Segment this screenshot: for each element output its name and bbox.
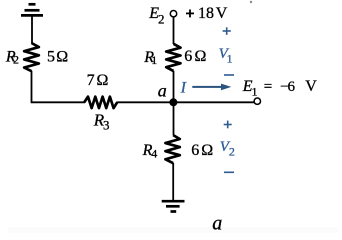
svg-text:2: 2 xyxy=(229,144,235,158)
svg-text:7: 7 xyxy=(87,72,95,89)
svg-text:1: 1 xyxy=(227,51,233,65)
svg-text:Ω: Ω xyxy=(56,49,68,66)
label +18V xyxy=(186,10,194,18)
terminal E2 xyxy=(170,11,176,17)
wire ground-to-R2 xyxy=(31,15,33,43)
svg-text:4: 4 xyxy=(151,147,157,161)
svg-text:Ω: Ω xyxy=(195,48,207,65)
ground (bottom) xyxy=(162,201,185,211)
svg-text:6: 6 xyxy=(184,48,192,65)
svg-text:5: 5 xyxy=(47,49,55,66)
svg-text:18: 18 xyxy=(198,5,214,22)
svg-text:a: a xyxy=(212,213,222,234)
svg-text:V: V xyxy=(305,78,317,95)
resistor R2 xyxy=(24,43,39,71)
resistor R1 xyxy=(166,44,180,71)
minus V1 (blue) xyxy=(224,74,234,76)
svg-text:2: 2 xyxy=(158,12,165,27)
plus V1 (blue) xyxy=(223,27,231,35)
svg-text:V: V xyxy=(216,5,228,22)
plus V2 (blue) xyxy=(224,121,232,129)
ground (top, inverted) xyxy=(21,4,43,15)
svg-text:6: 6 xyxy=(288,79,296,95)
wire R3-to-E1 terminal xyxy=(117,101,254,103)
stray speck top right xyxy=(250,1,252,3)
wire R1-to-R4 through node xyxy=(173,71,175,136)
faint caption band xyxy=(8,227,338,233)
resistor R3 xyxy=(84,97,117,109)
current arrow xyxy=(192,84,231,91)
svg-text:I: I xyxy=(180,80,187,97)
terminal E1 xyxy=(254,98,260,104)
svg-text:=: = xyxy=(264,79,272,95)
svg-text:3: 3 xyxy=(103,118,110,133)
wire E2-to-R1 xyxy=(173,17,175,44)
svg-text:2: 2 xyxy=(13,53,19,67)
svg-text:6: 6 xyxy=(191,142,199,159)
wire R4-to-ground xyxy=(172,163,174,201)
node a dot xyxy=(169,98,177,106)
resistor R4 xyxy=(165,135,179,163)
svg-text:Ω: Ω xyxy=(97,72,109,89)
minus V2 (blue) xyxy=(224,171,234,173)
svg-text:1: 1 xyxy=(252,85,258,99)
svg-text:Ω: Ω xyxy=(201,142,213,159)
svg-text:a: a xyxy=(158,81,167,101)
wire R2-to-corner xyxy=(32,71,86,103)
svg-text:1: 1 xyxy=(151,53,157,67)
